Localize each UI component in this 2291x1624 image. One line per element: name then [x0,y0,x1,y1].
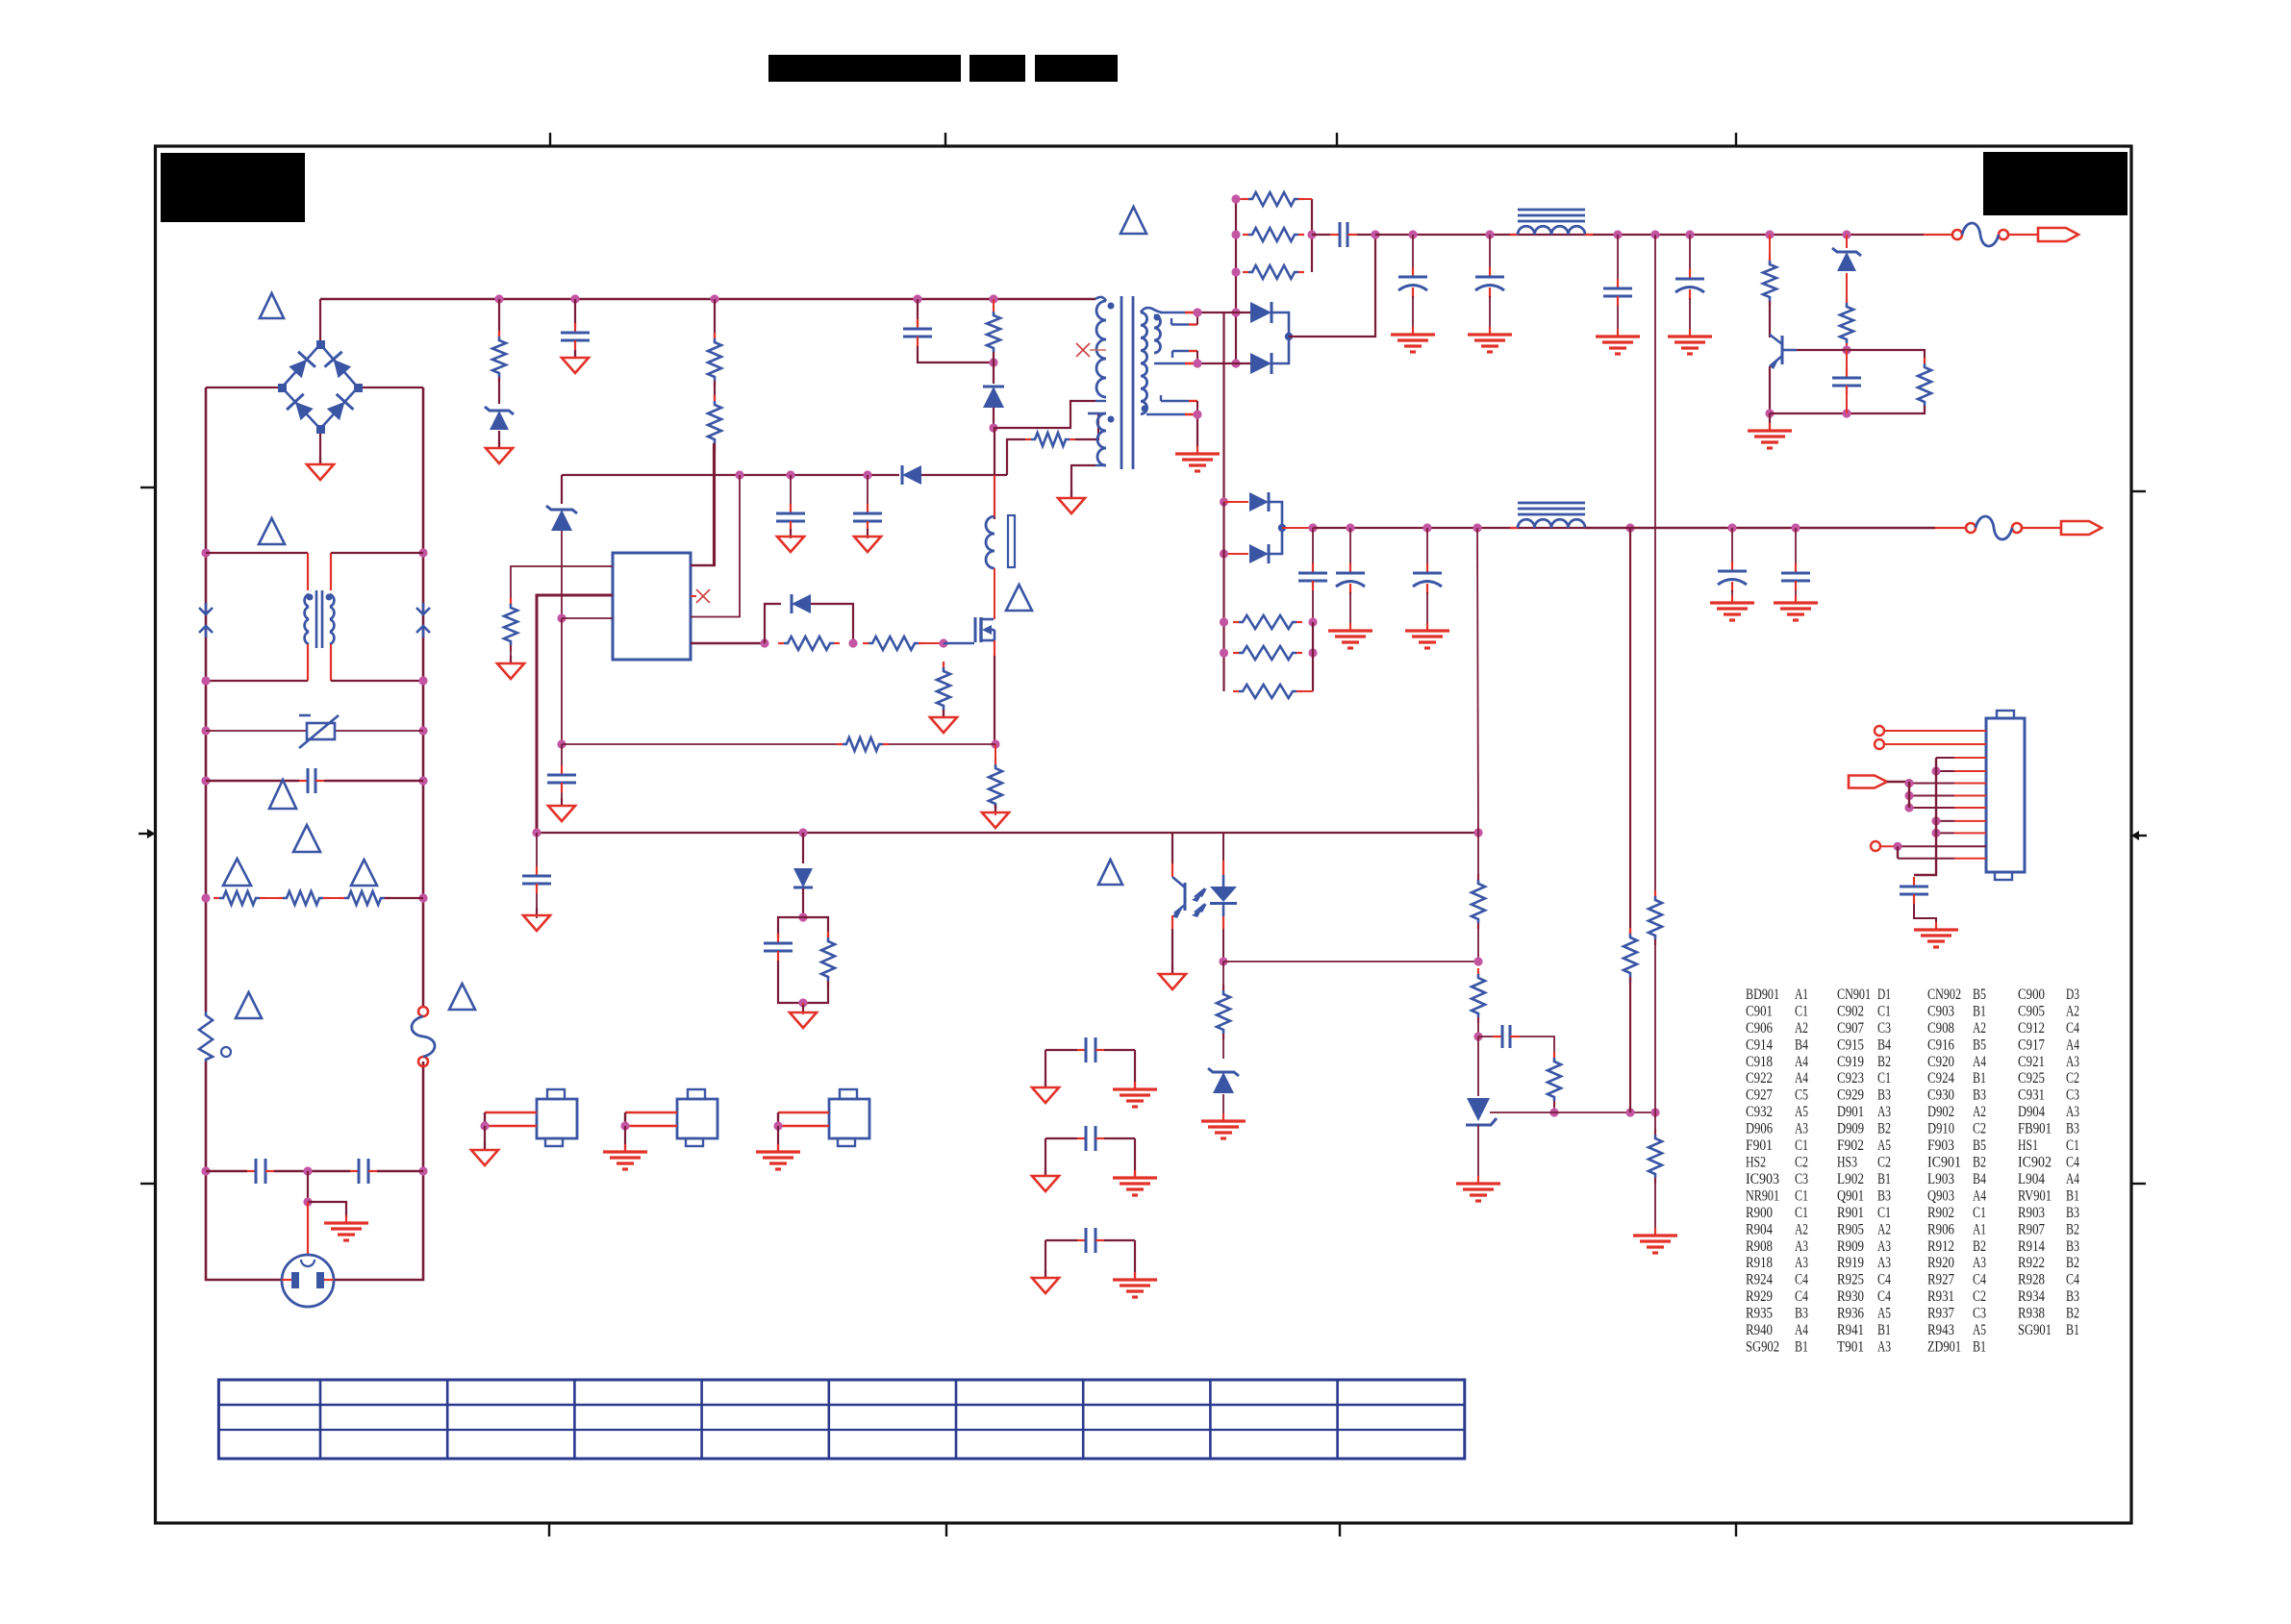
wire IC vcc pin [691,475,740,617]
fuse F902 [1966,516,2022,539]
earth ground G-C924 [1328,623,1372,648]
node N76 [1650,1108,1659,1116]
node N58 [1422,523,1431,532]
node N53 [1842,409,1850,417]
wire div link3 [1477,1037,1479,1096]
ground (triangle) G-C907 [854,529,881,552]
svg-text:A2: A2 [1877,1221,1891,1237]
wire IC startup pin [691,443,714,565]
wire div link2 [1477,1017,1479,1037]
wire ovp base wire [1797,349,1847,351]
wire tl431 gnd wire [1477,1125,1479,1182]
node N42 [1193,359,1201,367]
wire div link0 [1477,833,1479,880]
svg-text:B1: B1 [1973,1004,1986,1020]
wire LED chain wire3 [1222,1094,1224,1119]
svg-text:A4: A4 [1795,1070,1808,1087]
wire rail1 start [1357,234,1375,236]
resistor R938 [1548,1052,1561,1107]
wire rail2 start [1282,527,1313,529]
capacitor C900 [903,319,932,346]
node N65 [1727,523,1736,532]
svg-text:A5: A5 [1877,1306,1891,1322]
wire bridge right arm [358,387,423,388]
wire clamp cap wire 2 [918,346,994,362]
svg-text:C906: C906 [1746,1020,1773,1037]
wire snubber to cap [1312,234,1330,236]
title redaction bar 1 [768,55,961,82]
wire sense column [561,618,563,744]
svg-text:C914: C914 [1746,1037,1773,1053]
node N24 [863,470,871,479]
capacitor C915 [1330,222,1357,247]
connector arrow J3 feedback [1849,776,1887,788]
wire aux res wire [1007,439,1025,475]
svg-text:F901: F901 [1746,1137,1773,1154]
wire C916 wire2 [1412,296,1414,335]
svg-text:R924: R924 [1746,1272,1773,1288]
node N9 [201,893,210,902]
svg-text:C915: C915 [1837,1037,1864,1053]
earth ground G-C916 [1391,327,1435,352]
svg-text:C902: C902 [1837,1004,1864,1020]
wire res row link2 [323,897,344,899]
svg-text:C3: C3 [1877,1020,1891,1037]
wire startup wire [714,299,716,338]
resistor R906 [504,598,517,651]
wire C906 wire [790,475,792,510]
connector CN901 body [1986,711,2025,880]
wire HS2 gnd wire [624,1126,626,1150]
earth ground G-HS3 [756,1144,800,1169]
node N16 [570,294,579,303]
wire row3 corner [1297,690,1313,692]
node N66 [1791,523,1800,532]
node N13 [303,1166,312,1175]
svg-text:A3: A3 [1877,1238,1891,1255]
zener ZD902 [485,407,514,430]
wire sense row2 [889,743,995,745]
resistor R937 [1472,968,1485,1023]
svg-text:R912: R912 [1927,1238,1954,1255]
node N17 [710,294,718,303]
wire output rail 2 red [1935,527,1966,529]
node D901 out [1285,333,1293,340]
svg-text:C1: C1 [2066,1137,2079,1154]
CN901 pin5 wire [1909,783,1986,785]
node N48 [1685,230,1694,238]
node N43 [1371,230,1379,238]
fuse F903 [412,1007,435,1066]
svg-text:R905: R905 [1837,1221,1864,1237]
svg-text:A4: A4 [1795,1322,1808,1338]
wire C927 wire2 [1731,590,1733,603]
resistor R943 [1649,1129,1662,1184]
wire bleeder wire 2 [498,377,500,404]
wire AC left rail 6 [205,898,208,1012]
svg-text:B2: B2 [1877,1054,1891,1070]
warning triangle W2 [259,518,285,544]
warning triangle W8 [449,984,475,1010]
ground (triangle) G-C908 [548,798,575,821]
svg-text:B2: B2 [2066,1255,2079,1271]
wire snub row1 l [1236,198,1243,200]
wire zd wire 2 [561,531,563,618]
wire Y-cap center wire [274,1170,350,1173]
wire AC right rail 2 [422,553,425,681]
wire drain wire [994,475,995,516]
wire startup link [714,381,716,401]
svg-text:C907: C907 [1837,1020,1864,1037]
ground (triangle) G-aux [1058,490,1085,513]
wire AC right rail 6 [422,898,425,1007]
wire rail2 fuse out [2022,527,2060,529]
wire D902a wire [1224,501,1249,503]
svg-text:C2: C2 [1973,1288,1986,1305]
svg-text:RV901: RV901 [2018,1187,2052,1204]
wire choke top right drop [330,553,332,590]
wire CN cap wire [1914,904,1936,928]
polarized capacitor C919 [1675,269,1704,300]
wire C929 wire2 [1795,590,1797,603]
node N-HS1 [480,1121,489,1130]
wire drain column upper [994,428,995,519]
frame tick top 1 [549,133,551,146]
CN901 pin2 wire [1884,743,1986,745]
wire snubber right vert [1311,199,1313,272]
capacitor C908 [547,765,576,792]
node N19 [989,294,997,303]
wire Y-cap wire [206,1170,247,1173]
svg-text:R943: R943 [1927,1322,1954,1338]
svg-text:C4: C4 [2066,1020,2079,1037]
wire gate link2 [944,642,974,644]
ground (triangle) G-R906 [497,656,524,679]
wire C929 wire [1795,528,1797,569]
node NC1 [1904,779,1913,787]
spark gap SG901 [199,603,213,637]
node N67 [1193,410,1201,418]
svg-text:B3: B3 [1973,1087,1986,1104]
redaction box top-left [161,153,305,222]
inductor L903 [1510,503,1593,528]
wire C905 wire 2 [574,350,576,358]
diode D901a [1250,302,1271,323]
wire div link [1477,923,1479,962]
svg-text:C1: C1 [1973,1205,1986,1221]
svg-text:C932: C932 [1746,1104,1773,1120]
node N12 [418,1166,427,1175]
svg-text:A3: A3 [1877,1104,1891,1120]
zener ZD904 [1208,1068,1239,1093]
svg-text:F903: F903 [1927,1137,1954,1154]
node N52 [1842,345,1850,354]
svg-text:R909: R909 [1837,1238,1864,1255]
node NC3 [1904,803,1913,812]
frame arrow left [138,829,156,838]
svg-text:C4: C4 [1877,1272,1891,1288]
resistor R924 [1243,192,1304,206]
wire comp wire3 [1553,1101,1555,1112]
earth ground G-C917 [1468,327,1512,352]
wire startup wire 2 [691,443,715,565]
wire bridge to bus [319,299,321,344]
wire HS3 gnd wire [777,1126,779,1150]
svg-text:D910: D910 [1927,1121,1954,1137]
wire aux bottom [1071,465,1095,498]
wire zd wire [561,475,563,504]
wire snub row1 r [1304,198,1312,200]
node N55 [1220,549,1228,558]
wire D910 wire2 [802,888,804,917]
svg-text:C4: C4 [2066,1272,2079,1288]
node NC2 [1904,791,1913,800]
svg-text:R922: R922 [2018,1255,2045,1271]
svg-text:C903: C903 [1927,1004,1954,1020]
wire ovp left2 [1769,301,1771,337]
redaction box top-right [1983,152,2127,215]
connector arrow J1 +12V OUT [2038,228,2078,241]
wire C931 left wire [1045,1050,1046,1087]
capacitor C921 [1298,563,1327,590]
svg-text:A1: A1 [1973,1221,1986,1237]
svg-text:C3: C3 [2066,1087,2079,1104]
Y capacitor C902 [247,1159,274,1184]
wire C919 wire [1689,235,1691,273]
wire AC right rail 8 [334,1171,423,1280]
svg-text:B4: B4 [1877,1037,1891,1053]
node N73 [1473,1032,1482,1040]
diode D910 [793,868,813,887]
svg-text:B4: B4 [1795,1037,1808,1053]
node N46 [1613,230,1622,238]
wire choke bottom right [331,680,423,682]
svg-text:B1: B1 [1877,1171,1891,1187]
node N34 [798,998,807,1007]
wire divider top [1477,528,1478,833]
svg-text:D904: D904 [2018,1104,2045,1120]
wire gate pulldown wire [943,710,944,717]
node N35 [1231,230,1240,238]
wire C907 wire [867,475,869,510]
wire varistor wire [206,730,306,732]
capacitor C918 [1603,279,1632,306]
resistor R905 [1025,433,1075,446]
node N-HS3 [773,1121,782,1130]
zener ZD903 [1832,248,1861,271]
node N39 [1231,308,1240,316]
wire choke top left [206,552,308,554]
diode D901b [1250,353,1271,374]
svg-text:C924: C924 [1927,1070,1954,1087]
wire snubber left vert [1235,199,1237,363]
svg-text:D909: D909 [1837,1121,1864,1137]
wire comp wire2 [1520,1037,1554,1058]
svg-text:B3: B3 [2066,1238,2079,1255]
wire sense cap wire2 [561,792,563,806]
polarized capacitor C917 [1475,267,1504,298]
svg-text:D902: D902 [1927,1104,1954,1120]
wire HS1 gnd wire [484,1126,486,1150]
CN901 pin10 wire [1880,845,1986,847]
wire D910 box left [778,917,803,937]
resistor R940 [1649,890,1662,945]
svg-text:C900: C900 [2018,987,2045,1003]
svg-text:L902: L902 [1837,1171,1864,1187]
warning triangle W7 [236,992,262,1018]
svg-text:C931: C931 [2018,1087,2045,1104]
frame tick top 2 [944,133,946,146]
resistor R900a [214,891,265,905]
wire plug feed [307,1202,309,1256]
svg-text:R929: R929 [1746,1288,1773,1305]
wire output rail 2 [1313,527,1935,529]
node NC6 [1931,829,1940,837]
node N44 [1408,230,1417,238]
wire AC left rail [205,387,208,553]
svg-text:B3: B3 [1877,1087,1891,1104]
node N10 [418,893,427,902]
svg-text:B1: B1 [1973,1070,1986,1087]
resistor R934 [1217,985,1230,1039]
svg-text:A4: A4 [1973,1187,1986,1204]
wire clamp link 4 [993,408,994,428]
wire sec gnd tap [1196,414,1198,448]
node N70 [1219,957,1227,965]
resistor R941 [1624,928,1637,983]
wire AC right rail 7 [422,1062,425,1171]
diode D906 [902,465,921,485]
X capacitor C901 [299,768,324,793]
svg-text:A3: A3 [1973,1255,1986,1271]
capacitor C912 [522,866,551,893]
wire C932 right wire [1134,1138,1136,1176]
CN901 pin7 wire [1909,807,1986,809]
svg-text:A3: A3 [1795,1121,1808,1137]
node N27 [760,638,768,647]
wire D901 out wire [1289,235,1375,337]
node N47 [1650,230,1659,238]
wire D910 wire [802,833,804,863]
svg-text:IC902: IC902 [2018,1155,2052,1171]
node NC7 [1893,842,1901,851]
svg-text:R906: R906 [1927,1221,1954,1237]
polarized capacitor C927 [1718,562,1747,592]
resistor R901 [492,331,506,383]
svg-text:R931: R931 [1927,1288,1954,1305]
resistor R922 [1840,297,1853,349]
svg-text:R904: R904 [1746,1221,1773,1237]
wire IC pin1 wire [511,566,613,604]
svg-text:B5: B5 [1973,987,1986,1003]
svg-text:R908: R908 [1746,1238,1773,1255]
node N61 [1220,617,1228,626]
wire vertA link [1629,977,1631,1112]
svg-text:D901: D901 [1837,1104,1864,1120]
wire AC left rail 5 [205,781,208,898]
wire LED cathode [1222,929,1224,962]
wire plug right stub [324,1279,334,1281]
wire C931 right wire [1134,1050,1136,1087]
node N57 [1346,523,1354,532]
svg-text:B3: B3 [2066,1205,2079,1221]
wire LED chain wire2 [1222,1034,1224,1059]
svg-text:R920: R920 [1927,1255,1954,1271]
node N32 [798,828,807,837]
wire AC right rail 5 [422,781,425,898]
wire vertB link [1654,939,1656,1112]
svg-text:C929: C929 [1837,1087,1864,1104]
svg-text:A3: A3 [1877,1255,1891,1271]
Y capacitor C903 [350,1159,377,1184]
wire gate diode up [765,604,781,643]
wire LED anode [1222,833,1224,861]
svg-text:C922: C922 [1746,1070,1773,1087]
wire bus cap wire2 [536,893,538,918]
optocoupler IC901 (transistor) [1171,833,1207,974]
frame tick bottom 3 [1339,1523,1341,1537]
no-connect IC902 nc pin [696,589,710,603]
node N5 [201,726,210,735]
wire comp wire [1478,1036,1493,1037]
earth ground G-C919 [1668,329,1712,354]
earth ground G-Q903 [1748,423,1792,448]
node N62 [1220,648,1228,657]
wire C925 wire [1426,528,1428,567]
warning triangle W4 [293,825,320,852]
wire ovp zener wire2 [1846,273,1848,303]
svg-text:Q903: Q903 [1927,1187,1954,1204]
earth ground G-C929 [1774,595,1818,620]
svg-text:R934: R934 [2018,1288,2045,1305]
node N11 [201,1166,210,1175]
wire aux res wire 2 [1075,413,1098,439]
node N56 [1308,523,1317,532]
svg-text:R907: R907 [2018,1221,2045,1237]
wire HV bus [320,298,1095,301]
wire vertB link3 [1654,1178,1656,1234]
svg-text:A4: A4 [2066,1037,2079,1053]
node N41 [1193,308,1201,316]
nc stub 2 [691,595,696,597]
wire choke bottom left [206,680,308,682]
common-mode choke L901 [305,590,335,648]
svg-text:HS2: HS2 [1746,1155,1766,1171]
node N2 [418,548,427,557]
fuse F901 [1952,223,2008,246]
heatsink HS2 [625,1089,718,1146]
svg-text:C927: C927 [1746,1087,1773,1104]
polarized capacitor C925 [1413,563,1442,594]
AC plug CN902 [282,1255,334,1307]
svg-text:C1: C1 [1795,1187,1808,1204]
wire gate diode wire [811,604,853,643]
resistor R912 [937,662,950,715]
svg-text:C905: C905 [2018,1004,2045,1020]
ground (triangle) G-C912 [523,908,550,931]
revision table [218,1380,1464,1459]
svg-text:C1: C1 [1877,1205,1891,1221]
wire D910 box right [803,917,828,937]
svg-text:C917: C917 [2018,1037,2045,1053]
svg-text:A5: A5 [1973,1322,1986,1338]
resistor R914 [989,759,1002,813]
resistor R930 [1233,646,1302,660]
ground (triangle) G-C906 [777,529,804,552]
wire LED chain wire [1222,962,1224,990]
resistor R903 [708,395,721,449]
svg-text:A4: A4 [1973,1054,1986,1070]
